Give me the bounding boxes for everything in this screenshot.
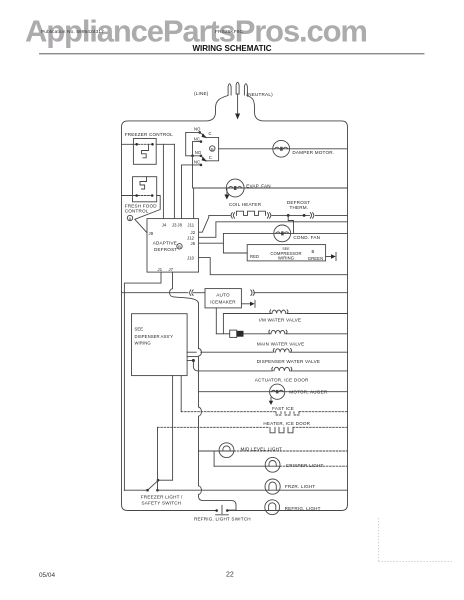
- outer circuit boundary with plug bump: [122, 96, 229, 511]
- svg-text:C: C: [209, 131, 212, 136]
- svg-text:CRISPER LIGHT: CRISPER LIGHT: [286, 463, 324, 468]
- wire: connector to icemaker box: [194, 292, 206, 294]
- wire: heater row left riser A: [157, 427, 159, 490]
- plug blade (ground center): [236, 82, 239, 94]
- svg-text:DISPENSER ASS'Y: DISPENSER ASS'Y: [135, 334, 174, 339]
- heater row to right border: [293, 426, 348, 428]
- dispenser water valve solenoid L3: [273, 349, 291, 353]
- svg-text:HEATER, ICE DOOR: HEATER, ICE DOOR: [263, 421, 310, 426]
- connector >> after icemaker: [251, 290, 255, 296]
- wire: J7 down with hop over icemaker row: [170, 272, 199, 348]
- outer boundary bottom segment between switch and lamp: [228, 510, 341, 512]
- wire: icemaker box down to main valve row: [215, 308, 217, 334]
- svg-text:GREEN: GREEN: [308, 256, 323, 261]
- wire: blob down into actuator row: [193, 361, 271, 371]
- svg-text:Publication No. 5995424317: Publication No. 5995424317: [41, 29, 104, 35]
- plug blade (line): [228, 84, 231, 95]
- circled B marker in relay box: [210, 146, 215, 151]
- svg-text:FRS26KF6C: FRS26KF6C: [215, 29, 244, 35]
- auger motor M4: [270, 384, 285, 399]
- svg-text:DEFROST: DEFROST: [154, 247, 177, 252]
- freezer control sensing element: [142, 144, 149, 158]
- wire: defrost therm to right border: [315, 214, 347, 216]
- svg-text:CONTROL: CONTROL: [125, 209, 149, 214]
- wire: safety switch row left: [124, 489, 147, 491]
- faint box bottom right: [379, 518, 453, 562]
- freezer control contact dashed: [138, 143, 151, 145]
- blade top dot: [157, 479, 160, 482]
- wire: junction down to evap fan row / J11: [193, 156, 194, 219]
- auger motor ground arrow: [270, 398, 272, 402]
- wire: J12 row: [199, 222, 348, 238]
- hop over fast ice row: [199, 407, 202, 423]
- wire: vertical bus hop over freezer row then to refrig feed: [199, 445, 237, 510]
- svg-text:FAST ICE: FAST ICE: [272, 406, 294, 411]
- svg-text:THERM.: THERM.: [290, 205, 309, 210]
- wire: dispenser valve row continues: [201, 351, 273, 353]
- svg-text:J3: J3: [172, 222, 177, 227]
- svg-text:J4: J4: [162, 222, 167, 227]
- svg-text:NO: NO: [195, 150, 202, 155]
- svg-text:NC: NC: [194, 136, 200, 141]
- header rule: [40, 53, 425, 55]
- wire: dispenser valve row from box: [187, 351, 196, 353]
- dispenser assembly box: [132, 314, 188, 376]
- wire: frzr light row: [158, 489, 348, 491]
- svg-text:J11: J11: [187, 222, 194, 227]
- freezer control terminals: [135, 143, 138, 146]
- svg-text:A: A: [129, 216, 132, 221]
- wire: J3 riser: [173, 144, 175, 218]
- svg-text:COND. FAN: COND. FAN: [293, 235, 320, 240]
- refrig lamp DS4: [265, 500, 280, 515]
- auto icemaker box: [205, 289, 241, 308]
- wire: upper NC drop: [193, 142, 201, 156]
- svg-text:J12: J12: [187, 235, 195, 240]
- mid level lamp DS1: [219, 443, 234, 458]
- svg-text:B: B: [211, 146, 214, 151]
- svg-text:ACTUATOR, ICE DOOR: ACTUATOR, ICE DOOR: [255, 378, 309, 383]
- svg-text:B: B: [312, 249, 315, 254]
- icemaker ground arrow: [241, 303, 251, 305]
- svg-text:DISPENSER WATER VALVE: DISPENSER WATER VALVE: [257, 359, 321, 364]
- hop over dispenser row on vertical: [199, 349, 202, 367]
- svg-text:05/04: 05/04: [39, 572, 55, 579]
- svg-text:REFRIG. LIGHT: REFRIG. LIGHT: [285, 506, 321, 511]
- crisper row to right border dashed: [280, 465, 348, 467]
- svg-text:J2: J2: [191, 230, 196, 235]
- plug blade (neutral): [244, 84, 247, 95]
- wire: border to freezer control: [122, 143, 137, 145]
- svg-text:RED: RED: [250, 254, 259, 259]
- jumper mid row to crisper row: [213, 451, 215, 466]
- svg-text:REFRIG. LIGHT SWITCH: REFRIG. LIGHT SWITCH: [194, 517, 251, 522]
- mid level row to right border dashed: [234, 450, 348, 452]
- wire: border to fresh food control: [122, 195, 137, 197]
- upper common arrow: [202, 133, 207, 138]
- svg-text:J1: J1: [158, 267, 163, 272]
- wire: vertical bus down to motor row: [198, 366, 200, 407]
- svg-text:SAFETY SWITCH: SAFETY SWITCH: [142, 501, 182, 506]
- wire: auger motor row: [199, 391, 348, 393]
- compressor wiring box: [247, 245, 325, 261]
- svg-text:C: C: [209, 155, 212, 160]
- fresh food contact dashed: [138, 195, 151, 197]
- wire: mid level light row: [199, 450, 234, 452]
- evap fan motor M2: [226, 179, 244, 197]
- circled A marker: [127, 215, 132, 220]
- svg-text:FREEZER CONTROL: FREEZER CONTROL: [125, 132, 173, 137]
- wire: fresh food control to J9: [135, 196, 160, 233]
- wire: lower NC to J8 riser: [182, 165, 201, 219]
- refrig light switch S3 terminals: [215, 509, 218, 512]
- svg-text:ICEMAKER: ICEMAKER: [210, 300, 236, 305]
- wire: freezer light riser B: [172, 376, 174, 481]
- svg-text:FREEZER LIGHT /: FREEZER LIGHT /: [141, 495, 183, 500]
- svg-text:J6: J6: [191, 241, 196, 246]
- wire: relay box to damper motor: [219, 148, 348, 150]
- svg-text:J9: J9: [149, 231, 154, 236]
- wire: crisper light row: [214, 465, 280, 467]
- evap fan ground arrow: [226, 189, 228, 196]
- wire: dispenser valve to right border: [291, 351, 348, 353]
- wire: actuator row to right border: [291, 370, 348, 372]
- svg-text:B: B: [178, 244, 181, 249]
- refrig light switch plunger: [216, 505, 229, 515]
- connector >> on defrost row: [310, 213, 314, 219]
- wire: blade top link: [158, 479, 173, 481]
- svg-text:NO: NO: [194, 126, 201, 131]
- svg-text:22: 22: [226, 572, 234, 579]
- compressor ground arrow: [326, 256, 333, 258]
- wire: stack row from box edge 356.6: [187, 356, 198, 358]
- wire: stack row from box edge 360.5: [187, 360, 193, 362]
- wire: I/M valve row: [223, 313, 271, 315]
- junction dot NC/NO bus: [191, 155, 194, 158]
- ground arrow head: [235, 114, 240, 120]
- inline connector plug: [230, 330, 237, 337]
- junction blob: [192, 359, 195, 362]
- wire: freezer control to J4/J3 risers: [156, 143, 174, 145]
- switch terminal dots: [198, 131, 201, 134]
- safety switch blade: [148, 481, 159, 491]
- svg-text:EVAP. FAN: EVAP. FAN: [246, 184, 271, 189]
- wire: defrost therm step down to cond fan row: [288, 215, 293, 233]
- I/M water valve solenoid L1: [270, 310, 288, 314]
- svg-text:MOTOR, AUGER: MOTOR, AUGER: [289, 390, 328, 395]
- connector << icemaker: [190, 290, 194, 296]
- compressor block left bus: [223, 233, 347, 253]
- wire: connector to main valve coil: [244, 333, 271, 335]
- fresh food control terminals: [135, 194, 138, 197]
- wire: J6 row to compressor block: [199, 242, 224, 244]
- damper relay box: [206, 137, 219, 160]
- lower blade C to NO: [201, 156, 206, 161]
- wire: J2 to coil heater: [199, 215, 231, 232]
- wire: J1 long run down left: [124, 272, 161, 491]
- wire: icemaker row to right border: [254, 292, 348, 294]
- svg-text:J8: J8: [177, 222, 182, 227]
- fast ice switch S1: [276, 412, 299, 415]
- svg-text:(NEUTRAL): (NEUTRAL): [247, 92, 274, 97]
- wire: fast ice row drop from box bottom: [180, 376, 182, 412]
- frzr lamp DS3: [265, 479, 280, 494]
- wire: coil heater to defrost therm: [272, 214, 310, 216]
- main water valve solenoid L2: [269, 330, 287, 334]
- svg-text:J7: J7: [169, 267, 174, 272]
- upper blade C to NO: [200, 133, 206, 138]
- svg-text:WIRING: WIRING: [135, 341, 151, 346]
- wire: I/M valve row left drop: [222, 314, 224, 334]
- crisper lamp DS2: [265, 457, 280, 472]
- connector )) right: [267, 213, 271, 219]
- cond fan motor M3: [274, 225, 291, 242]
- svg-text:WIRING: WIRING: [278, 256, 294, 261]
- svg-text:I/M WATER VALVE: I/M WATER VALVE: [259, 318, 301, 323]
- damper motor M1: [273, 140, 290, 157]
- lower common arrow: [202, 157, 207, 162]
- svg-text:(LINE): (LINE): [194, 91, 209, 96]
- svg-text:DAMPER MOTOR.: DAMPER MOTOR.: [292, 150, 334, 155]
- freezer safety switch S2 terminals: [146, 489, 149, 492]
- heater ice door dashed row: [158, 426, 270, 428]
- svg-text:SEE: SEE: [135, 327, 144, 332]
- wire: J4 riser: [162, 144, 164, 218]
- svg-text:NC: NC: [194, 160, 200, 165]
- connector (( left: [231, 213, 235, 219]
- svg-text:AUTO: AUTO: [216, 293, 230, 298]
- wire: J10 row: [199, 258, 348, 275]
- wire: NO bus: [186, 132, 201, 155]
- freezer control box: [133, 139, 156, 165]
- adaptive defrost control board U1: [147, 219, 199, 273]
- defrost therm terminal dots: [287, 214, 290, 217]
- wire: vertical joins heater row: [198, 423, 200, 445]
- fast ice row to right border: [299, 411, 348, 413]
- wire: evap fan feed: [194, 187, 348, 189]
- svg-text:J10: J10: [187, 255, 195, 260]
- svg-text:ADAPTIVE: ADAPTIVE: [153, 240, 177, 245]
- svg-text:COIL HEATER: COIL HEATER: [229, 202, 262, 207]
- actuator ice door solenoid L4: [272, 367, 292, 371]
- fast ice dashed row: [181, 411, 275, 413]
- fresh food control sensing element: [140, 177, 147, 189]
- svg-text:MAIN WATER VALVE: MAIN WATER VALVE: [257, 342, 304, 347]
- fresh food control box: [133, 177, 157, 202]
- ice door heater element R2: [270, 427, 293, 433]
- wire: main valve to right border: [286, 333, 348, 335]
- wire: I/M valve to right border: [287, 313, 348, 315]
- svg-text:WIRING SCHEMATIC: WIRING SCHEMATIC: [193, 43, 272, 53]
- wire: icemaker feed row: [122, 292, 189, 294]
- ground wire from center blade: [237, 94, 239, 114]
- circled B marker on board: [177, 244, 182, 249]
- wire: main valve row: [216, 333, 229, 335]
- coil heater element R1: [237, 211, 266, 215]
- outer boundary right side: [247, 96, 348, 511]
- svg-text:FRESH FOOD: FRESH FOOD: [125, 203, 158, 208]
- svg-text:FRZR. LIGHT: FRZR. LIGHT: [285, 484, 316, 489]
